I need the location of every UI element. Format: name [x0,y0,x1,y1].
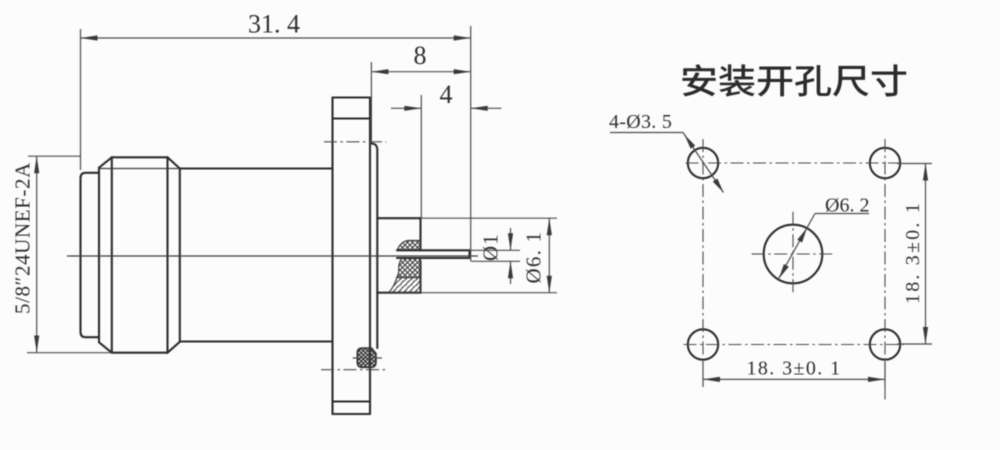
svg-text:8: 8 [414,41,427,70]
svg-text:Ø1: Ø1 [479,233,503,261]
svg-text:18. 3±0. 1: 18. 3±0. 1 [902,201,924,304]
svg-text:5/8″24UNEF-2A: 5/8″24UNEF-2A [11,162,35,314]
svg-text:18. 3±0. 1: 18. 3±0. 1 [747,358,842,380]
svg-text:Ø6. 1: Ø6. 1 [522,231,546,284]
svg-text:4: 4 [440,80,453,109]
svg-text:31. 4: 31. 4 [248,10,300,39]
svg-text:4-Ø3. 5: 4-Ø3. 5 [609,111,672,133]
